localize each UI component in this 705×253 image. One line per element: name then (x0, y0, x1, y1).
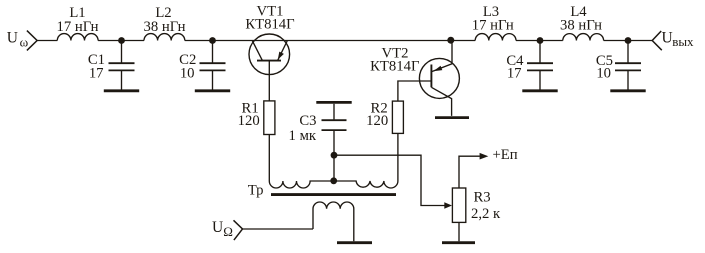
node F junction dot C4 (537, 37, 544, 44)
svg-text:U: U (662, 30, 673, 47)
wire: rail L3 to L4 (516, 40, 563, 42)
node E junction dot transformer tap (330, 177, 337, 184)
svg-text:C3: C3 (299, 113, 316, 129)
wire: R3 up to +Ep (459, 156, 480, 188)
wire: VT2 base to R2 (398, 81, 432, 101)
svg-text:38 нГн: 38 нГн (560, 18, 602, 34)
svg-text:120: 120 (366, 113, 388, 129)
svg-text:U: U (7, 30, 18, 47)
svg-text:120: 120 (238, 113, 260, 129)
inductor L3 (475, 34, 516, 41)
resistor R1 (264, 101, 275, 135)
ground for C4 (522, 89, 557, 92)
node C junction dot C3 wire (331, 152, 338, 159)
capacitor C1 (109, 41, 135, 90)
svg-text:U: U (212, 219, 223, 236)
ground for C5 (610, 89, 645, 92)
svg-text:17: 17 (89, 65, 104, 81)
inductor L1 (57, 34, 98, 41)
svg-text:38 нГн: 38 нГн (143, 19, 185, 35)
wire: top rail input to L1 (37, 40, 57, 42)
svg-text:10: 10 (596, 65, 611, 81)
inductor L4 (563, 34, 604, 41)
ground for R3 (442, 241, 475, 244)
node A junction dot C1 (118, 37, 125, 44)
wire: junction to R3 wiper (334, 155, 445, 205)
resistor R3 (variable) (452, 188, 465, 222)
svg-text:вых: вых (672, 34, 694, 49)
svg-text:2,2 к: 2,2 к (471, 206, 501, 222)
svg-text:1 мк: 1 мк (289, 128, 317, 144)
ground for VT2 (435, 116, 469, 119)
wire: R1 down to transformer (268, 135, 270, 182)
capacitor C2 (200, 41, 226, 90)
node D junction dot VT2 emitter on rail (447, 37, 454, 44)
wire: rail L2 to L3 (passes through VT1) (185, 40, 475, 42)
wire: VT1 base down to R1 (268, 61, 270, 101)
svg-text:Тр: Тр (248, 182, 264, 198)
capacitor C5 (615, 41, 641, 90)
wire: U_Omega to transformer (243, 228, 314, 230)
transistor VT2 KT814G (419, 41, 459, 116)
capacitor C3 (322, 104, 347, 181)
svg-text:+Еп: +Еп (493, 147, 518, 163)
transformer Tp top winding (269, 181, 398, 188)
capacitor C4 (527, 41, 553, 90)
svg-text:17 нГн: 17 нГн (472, 18, 514, 34)
ground for bottom winding (337, 241, 372, 244)
svg-text:КТ814Г: КТ814Г (370, 59, 420, 75)
svg-text:КТ814Г: КТ814Г (245, 17, 295, 33)
input terminal U_Omega (234, 220, 243, 240)
arrow +Ep (480, 153, 489, 160)
inductor L2 (144, 34, 185, 41)
ground for C2 (195, 89, 230, 92)
wire: R2 down to transformer (397, 133, 399, 181)
transformer core (271, 193, 396, 196)
node G junction dot C5 (625, 37, 632, 44)
svg-text:R3: R3 (474, 190, 491, 206)
svg-text:ω: ω (20, 34, 29, 49)
svg-text:17: 17 (507, 65, 522, 81)
wire: R3 down to ground (458, 222, 460, 241)
transformer Tp bottom winding (313, 202, 354, 241)
resistor R2 (392, 101, 403, 133)
ground for C3 (316, 101, 351, 104)
wire: rail L1 to L2 (98, 40, 144, 42)
svg-text:Ω: Ω (223, 224, 233, 239)
wiper arrow into R3 (444, 202, 452, 208)
ground for C1 (104, 89, 139, 92)
wire: rail L4 to output (604, 40, 653, 42)
output terminal U_out (652, 31, 662, 50)
transistor VT1 KT814G (249, 34, 290, 75)
svg-text:10: 10 (180, 65, 195, 81)
node B junction dot C2 (209, 37, 216, 44)
input terminal U_omega (27, 31, 37, 51)
svg-text:17 нГн: 17 нГн (56, 19, 98, 35)
